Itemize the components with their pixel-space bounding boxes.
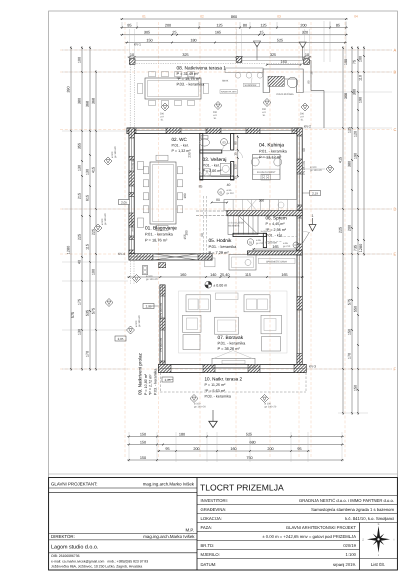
svg-text:180: 180 — [190, 38, 196, 42]
svg-text:100: 100 — [78, 57, 82, 63]
svg-text:02. WC: 02. WC — [172, 137, 188, 142]
svg-text:srpanj 2019.: srpanj 2019. — [333, 562, 356, 567]
svg-text:MJERILO:: MJERILO: — [201, 552, 220, 557]
svg-text:x 4 x 16,25/26: x 4 x 16,25/26 — [229, 221, 245, 224]
svg-text:gv 210: gv 210 — [227, 192, 235, 195]
svg-text:*P = 15,75 m²: *P = 15,75 m² — [177, 76, 202, 81]
svg-text:200: 200 — [193, 447, 199, 451]
svg-text:165: 165 — [215, 31, 221, 35]
svg-text:h:200 cm: h:200 cm — [266, 241, 278, 245]
svg-text:735: 735 — [354, 245, 358, 251]
svg-text:615: 615 — [86, 195, 90, 201]
svg-text:P = 4,45 m²: P = 4,45 m² — [266, 222, 286, 226]
svg-text:A: A — [394, 47, 397, 52]
svg-text:80: 80 — [216, 198, 220, 202]
svg-text:± 0.00 m: ± 0.00 m — [213, 284, 227, 288]
svg-text:200: 200 — [267, 447, 273, 451]
svg-text:P = 2,06 m²: P = 2,06 m² — [203, 169, 223, 173]
svg-text:k.č. 841/10, k.o. Smoljanci: k.č. 841/10, k.o. Smoljanci — [345, 516, 394, 521]
svg-text:125: 125 — [260, 23, 266, 27]
svg-text:85: 85 — [336, 23, 340, 27]
svg-text:360: 360 — [259, 199, 265, 203]
svg-text:130: 130 — [78, 329, 82, 335]
svg-text:525: 525 — [246, 432, 252, 436]
svg-text:325: 325 — [182, 53, 188, 57]
svg-text:P = 10,80 m²: P = 10,80 m² — [144, 373, 148, 395]
svg-text:160: 160 — [230, 447, 236, 451]
svg-text:± 0.00 m = +242,65 mnv = gotov: ± 0.00 m = +242,65 mnv = gotovi pod PRIZ… — [262, 534, 356, 539]
svg-text:E: E — [394, 251, 397, 256]
svg-text:120: 120 — [354, 131, 358, 137]
svg-text:525: 525 — [277, 38, 283, 42]
svg-text:P.03. - keramika: P.03. - keramika — [177, 82, 206, 87]
svg-text:P = 13,12 m²: P = 13,12 m² — [259, 155, 282, 160]
svg-text:P = 1,32 m²: P = 1,32 m² — [172, 149, 192, 153]
svg-text:150: 150 — [354, 385, 358, 391]
svg-text:1: 1 — [312, 214, 314, 218]
svg-text:020/19: 020/19 — [343, 543, 356, 548]
svg-text:P.01. - kar.: P.01. - kar. — [266, 234, 283, 238]
svg-text:GRAĐEVINA:: GRAĐEVINA: — [201, 507, 227, 512]
svg-text:02: 02 — [200, 15, 204, 19]
svg-text:15: 15 — [234, 152, 238, 156]
svg-text:95: 95 — [165, 447, 169, 451]
svg-text:P.03. - keramika: P.03. - keramika — [205, 395, 232, 399]
svg-text:200: 200 — [165, 23, 171, 27]
svg-text:PIZZA PEĆARA: PIZZA PEĆARA — [277, 92, 295, 96]
svg-text:10. Natkr. terasa 2: 10. Natkr. terasa 2 — [205, 377, 243, 382]
svg-text:03. Vešeraj: 03. Vešeraj — [203, 157, 227, 163]
svg-text:150: 150 — [140, 456, 146, 460]
svg-text:40: 40 — [227, 183, 231, 187]
svg-text:165: 165 — [281, 273, 287, 277]
svg-text:e-mail: ca.marko.ivicek@gmail.: e-mail: ca.marko.ivicek@gmail.com mob.: … — [51, 560, 148, 564]
svg-text:RADNA PLOHA: RADNA PLOHA — [221, 91, 237, 94]
svg-text:SUDOPER: SUDOPER — [245, 84, 257, 87]
svg-text:2,05: 2,05 — [165, 378, 171, 382]
svg-text:100: 100 — [92, 269, 96, 275]
svg-text:75: 75 — [353, 60, 357, 64]
svg-text:368: 368 — [86, 101, 90, 107]
svg-text:GLAVNI PROJEKTANT:: GLAVNI PROJEKTANT: — [51, 481, 97, 486]
svg-text:115: 115 — [86, 244, 90, 250]
svg-text:01: 01 — [219, 190, 223, 194]
svg-text:*P = 2,94 m²: *P = 2,94 m² — [266, 228, 287, 232]
svg-text:110: 110 — [359, 75, 363, 81]
svg-text:mag.ing.arch.Marko Ivišek: mag.ing.arch.Marko Ivišek — [143, 534, 195, 539]
svg-text:180: 180 — [179, 432, 185, 436]
svg-text:150: 150 — [140, 440, 146, 444]
svg-text:P.01. - ker.: P.01. - ker. — [203, 164, 220, 168]
svg-text:85: 85 — [199, 185, 203, 189]
svg-text:550: 550 — [354, 306, 358, 312]
svg-text:368: 368 — [344, 93, 348, 99]
svg-text:15: 15 — [259, 31, 263, 35]
svg-text:DATUM:: DATUM: — [201, 562, 217, 567]
svg-text:215: 215 — [78, 193, 82, 199]
svg-text:160: 160 — [180, 273, 186, 277]
svg-text:S: S — [378, 523, 380, 526]
svg-text:gv 140+20: gv 140+20 — [146, 278, 158, 281]
svg-text:gv 140+20: gv 140+20 — [138, 315, 141, 327]
svg-text:KV-3: KV-3 — [309, 365, 316, 369]
svg-text:575: 575 — [348, 299, 352, 305]
svg-text:190: 190 — [359, 97, 363, 103]
svg-text:100: 100 — [344, 59, 348, 65]
svg-text:575: 575 — [71, 312, 75, 318]
svg-text:KV-4: KV-4 — [118, 252, 125, 256]
svg-text:355: 355 — [78, 143, 82, 149]
svg-text:gv 140+20: gv 140+20 — [310, 169, 322, 172]
svg-text:P = 7,29 m²: P = 7,29 m² — [209, 250, 230, 255]
svg-text:25: 25 — [172, 31, 176, 35]
svg-text:gv 140+20: gv 140+20 — [104, 213, 107, 225]
svg-text:P.01. - keramika: P.01. - keramika — [218, 340, 247, 345]
svg-text:01: 01 — [142, 15, 146, 19]
svg-text:380: 380 — [78, 98, 82, 104]
svg-text:*P = 5,63 m²: *P = 5,63 m² — [205, 389, 226, 393]
svg-text:85: 85 — [127, 23, 131, 27]
svg-text:D: D — [394, 206, 397, 211]
svg-text:2,05: 2,05 — [121, 200, 127, 204]
svg-text:60/20/85%: 60/20/85% — [229, 225, 240, 228]
svg-text:200: 200 — [348, 225, 352, 231]
svg-text:Ježdovečka 86A, Ježdovec, 10 2: Ježdovečka 86A, Ježdovec, 10 250 Lučko, … — [51, 564, 142, 568]
svg-text:INVESTITORI:: INVESTITORI: — [201, 498, 228, 503]
svg-text:gv 140+20: gv 140+20 — [114, 146, 117, 158]
svg-text:gv 140+20: gv 140+20 — [194, 406, 206, 409]
svg-text:80: 80 — [307, 80, 311, 84]
svg-text:1:100: 1:100 — [346, 552, 357, 557]
svg-text:125: 125 — [216, 23, 222, 27]
svg-text:130: 130 — [86, 169, 90, 175]
svg-text:List 03.: List 03. — [371, 562, 385, 567]
svg-text:KUHIN.ELEMENT: KUHIN.ELEMENT — [257, 171, 276, 174]
svg-text:2,19: 2,19 — [312, 191, 318, 195]
svg-text:GLAVNI ARHITEKTONSKI PROJEKT: GLAVNI ARHITEKTONSKI PROJEKT — [286, 525, 357, 530]
svg-text:130: 130 — [78, 165, 82, 171]
svg-text:380: 380 — [348, 161, 352, 167]
svg-text:*P = 2,72 m²: *P = 2,72 m² — [149, 374, 153, 395]
svg-text:225: 225 — [92, 229, 96, 235]
svg-text:M.P.: M.P. — [186, 527, 194, 532]
svg-text:P = 11,25 m²: P = 11,25 m² — [205, 383, 227, 387]
svg-text:09. Natkriveni prolaz: 09. Natkriveni prolaz — [138, 352, 143, 395]
svg-text:gv 210: gv 210 — [256, 242, 264, 245]
svg-text:175: 175 — [78, 299, 82, 305]
svg-text:860: 860 — [231, 15, 237, 19]
svg-text:P = 31,49 m²: P = 31,49 m² — [177, 71, 200, 76]
svg-text:04: 04 — [354, 15, 358, 19]
svg-text:170: 170 — [348, 353, 352, 359]
svg-text:170: 170 — [86, 351, 90, 357]
svg-text:165: 165 — [272, 245, 278, 249]
svg-text:225: 225 — [339, 227, 343, 233]
svg-text:95: 95 — [297, 447, 301, 451]
svg-text:Pv 90 cm: Pv 90 cm — [131, 221, 134, 232]
svg-text:320: 320 — [302, 31, 308, 35]
svg-text:P = 36,26 m²: P = 36,26 m² — [218, 346, 241, 351]
svg-text:FAZA:: FAZA: — [201, 525, 213, 530]
svg-text:P = 18,76 m²: P = 18,76 m² — [145, 238, 168, 243]
svg-text:BR.TD:: BR.TD: — [201, 543, 215, 548]
svg-text:GRADNJA NESTIĆ d.o.o. i IMMO P: GRADNJA NESTIĆ d.o.o. i IMMO PARTNER d.o… — [299, 498, 394, 503]
svg-text:2,05: 2,05 — [118, 337, 124, 341]
svg-text:LOKACIJA:: LOKACIJA: — [201, 516, 222, 521]
svg-text:Samostojeća stambena zgrada 1: Samostojeća stambena zgrada 1 s bazenom — [311, 507, 394, 512]
svg-text:gv 210: gv 210 — [283, 245, 291, 248]
svg-text:225: 225 — [78, 234, 82, 240]
svg-text:680: 680 — [249, 440, 255, 444]
svg-text:415: 415 — [92, 167, 96, 173]
svg-text:325: 325 — [270, 53, 276, 57]
svg-text:SPREMIŠTE DRVA: SPREMIŠTE DRVA — [266, 259, 287, 263]
svg-text:10: 10 — [130, 53, 134, 57]
svg-text:368: 368 — [92, 98, 96, 104]
svg-text:03: 03 — [222, 140, 226, 144]
svg-text:575: 575 — [92, 308, 96, 314]
svg-text:P.01. - ker.: P.01. - ker. — [172, 144, 189, 148]
svg-text:KV-2: KV-2 — [304, 125, 311, 129]
svg-text:1280: 1280 — [67, 246, 71, 254]
svg-text:Lagom studio d.o.o.: Lagom studio d.o.o. — [51, 545, 98, 551]
svg-text:115: 115 — [245, 273, 251, 277]
svg-text:415: 415 — [339, 157, 343, 163]
svg-text:Pv 90 cm: Pv 90 cm — [131, 159, 134, 170]
svg-text:150: 150 — [146, 38, 152, 42]
svg-text:SNAK: SNAK — [222, 80, 229, 83]
svg-text:1280: 1280 — [359, 244, 363, 252]
svg-text:C: C — [394, 127, 397, 132]
svg-text:01: 01 — [249, 240, 253, 244]
svg-text:mag.ing.arch.Marko Ivišek: mag.ing.arch.Marko Ivišek — [143, 481, 195, 486]
svg-text:150: 150 — [140, 432, 146, 436]
svg-text:03: 03 — [277, 15, 281, 19]
svg-text:gv 140+20: gv 140+20 — [265, 406, 277, 409]
svg-text:P.01. - keramika: P.01. - keramika — [259, 149, 288, 154]
svg-text:180: 180 — [183, 193, 187, 199]
svg-text:B: B — [394, 69, 397, 74]
svg-text:DIREKTOR:: DIREKTOR: — [51, 534, 75, 539]
svg-text:535: 535 — [86, 310, 90, 316]
svg-text:750: 750 — [246, 456, 252, 460]
svg-text:KV-1: KV-1 — [134, 43, 141, 47]
svg-text:305: 305 — [274, 79, 279, 82]
svg-text:100: 100 — [359, 56, 363, 62]
svg-text:P.03. - keramika: P.03. - keramika — [154, 368, 158, 395]
svg-text:150: 150 — [348, 329, 352, 335]
svg-text:TLOCRT PRIZEMLJA: TLOCRT PRIZEMLJA — [200, 482, 284, 492]
svg-text:80: 80 — [243, 23, 247, 27]
svg-text:25,40: 25,40 — [220, 273, 230, 277]
svg-text:180: 180 — [185, 230, 189, 236]
svg-text:305: 305 — [144, 31, 150, 35]
svg-text:390: 390 — [67, 86, 71, 92]
svg-text:125: 125 — [348, 127, 352, 133]
svg-text:06. Sprem: 06. Sprem — [266, 216, 287, 221]
svg-text:190: 190 — [354, 153, 358, 159]
svg-text:P.01. - keramika: P.01. - keramika — [209, 244, 238, 249]
svg-text:200: 200 — [300, 23, 306, 27]
svg-text:OIB: 26106086736: OIB: 26106086736 — [51, 554, 80, 558]
svg-text:P.01. - keramika: P.01. - keramika — [145, 232, 174, 237]
svg-text:140: 140 — [210, 273, 216, 277]
svg-text:2,05: 2,05 — [146, 304, 152, 308]
svg-text:10: 10 — [305, 53, 309, 57]
